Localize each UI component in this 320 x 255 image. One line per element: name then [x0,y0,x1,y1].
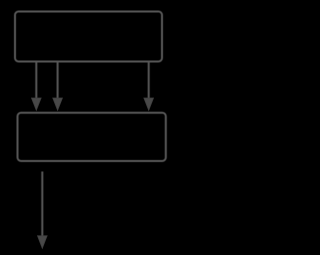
edge E1 arrowhead [32,98,42,110]
edge E4 line: B2 downward [41,172,43,239]
node box B1 (top) [15,12,162,62]
node box B2 (bottom) [18,113,166,161]
edge E2 line: B1 to B2 middle [57,62,59,101]
edge E1 line: B1 to B2 left [35,62,37,101]
edge E3 line: B1 to B2 right [148,62,150,101]
edge E2 arrowhead [53,98,63,110]
edge E4 arrowhead [38,236,48,249]
edge E3 arrowhead [144,98,154,110]
